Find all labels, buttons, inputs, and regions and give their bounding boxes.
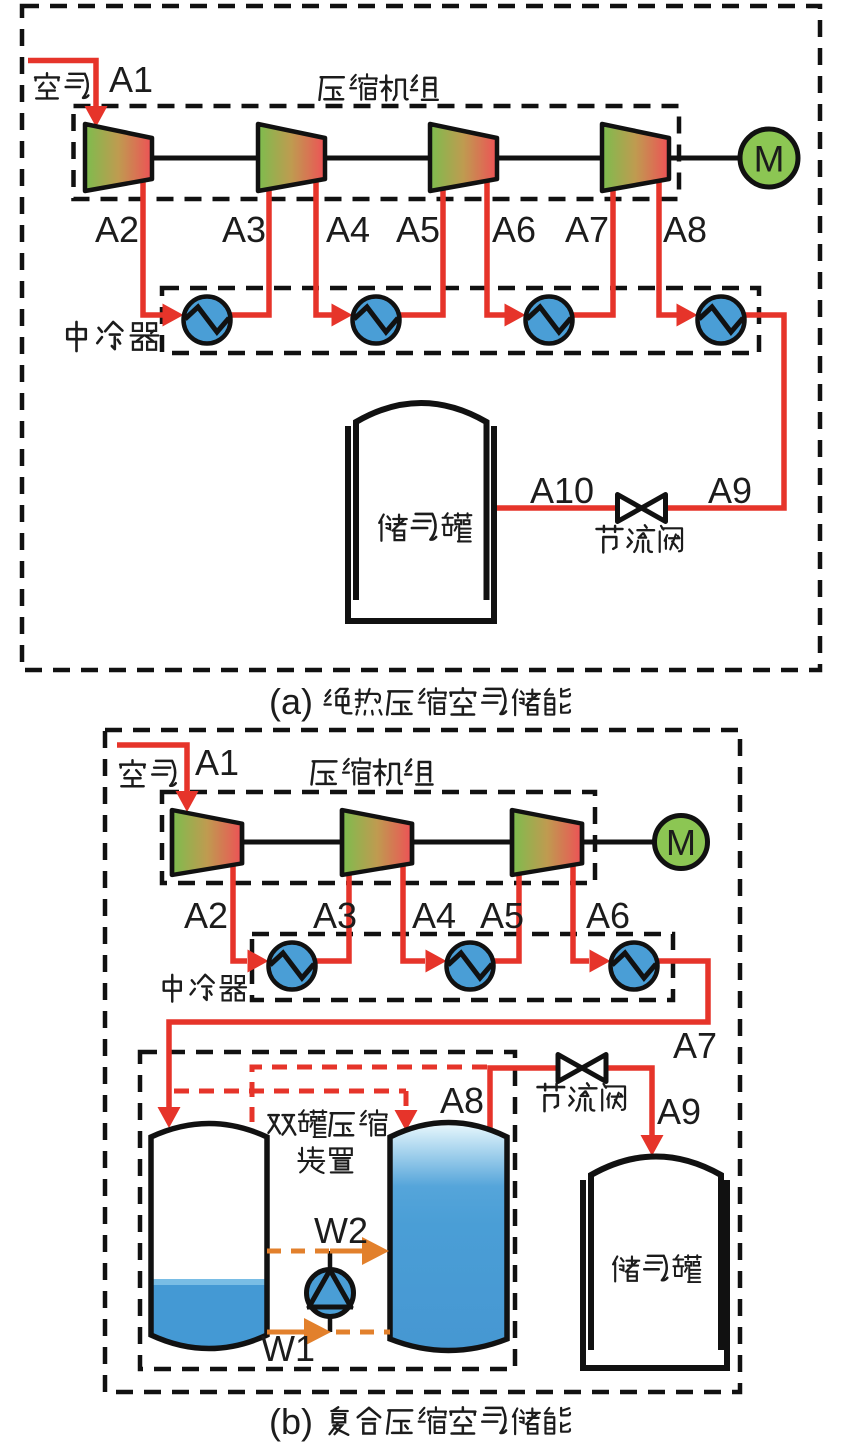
intercooler 3 (a)	[526, 297, 573, 344]
air storage tank (a)	[348, 403, 494, 621]
label intercooler (b)	[164, 975, 246, 1002]
pipe A3 intercooler1-compressor2 (a)	[230, 187, 269, 315]
svg-text:A10: A10	[530, 470, 594, 511]
svg-text:A9: A9	[708, 470, 752, 511]
svg-text:A3: A3	[313, 895, 357, 936]
pump line W (b)	[328, 1251, 333, 1332]
pipe A6 compressor3-intercooler3 (b)	[573, 866, 611, 973]
svg-text:A6: A6	[586, 895, 630, 936]
pipe air inlet A1 (b)	[117, 745, 199, 812]
label compressor-train (b)	[311, 758, 432, 785]
svg-text:A2: A2	[184, 895, 228, 936]
svg-text:(a): (a)	[269, 681, 313, 722]
label intercooler (a)	[67, 322, 158, 351]
compressor stage2 (a)	[258, 124, 325, 191]
caption (a)	[269, 681, 570, 722]
pipe W1 tank1-pump-tank2 (b)	[267, 1318, 390, 1346]
svg-text:M: M	[666, 822, 696, 863]
svg-text:A8: A8	[440, 1080, 484, 1121]
label throttle-valve (a)	[596, 525, 682, 552]
intercooler 1 (a)	[184, 297, 231, 344]
svg-text:A5: A5	[396, 209, 440, 250]
svg-text:A4: A4	[326, 209, 370, 250]
pipe A5 intercooler2-compressor3 (a)	[399, 187, 443, 315]
pipe A4 compressor2-intercooler2 (b)	[403, 866, 447, 973]
compressor stage3 (b)	[512, 810, 582, 875]
svg-text:A7: A7	[565, 209, 609, 250]
circulation pump (b)	[307, 1270, 354, 1317]
label tank3 (b)	[613, 1255, 701, 1282]
compressor train box (b)	[162, 792, 595, 883]
svg-text:(b): (b)	[269, 1401, 313, 1442]
pipe A7 intercooler3-tank1 (b)	[158, 961, 709, 1128]
throttle valve (a)	[618, 495, 666, 522]
boundary box system (b)	[105, 730, 740, 1392]
svg-text:A9: A9	[657, 1091, 701, 1132]
pipe W2 tank1-tank2 (b)	[267, 1237, 389, 1265]
air storage tank3 (b)	[583, 1157, 727, 1369]
standby pipe upper dashed (b)	[252, 1067, 490, 1122]
svg-text:A7: A7	[673, 1025, 717, 1066]
label tank (a)	[379, 513, 471, 541]
label compressor-train (a)	[319, 74, 437, 100]
pipe A2 compressor1-intercooler1 (a)	[143, 181, 184, 327]
svg-text:W2: W2	[314, 1210, 368, 1251]
boundary box system (a)	[22, 6, 820, 670]
pipe A8 compressor4-intercooler4 (a)	[659, 181, 698, 327]
pipe A10 valve-tank (a)	[497, 505, 616, 511]
intercooler 4 (a)	[698, 297, 745, 344]
compressor stage1 (b)	[172, 810, 242, 875]
svg-text:A5: A5	[480, 895, 524, 936]
pipe A3 intercooler1-compressor2 (b)	[315, 873, 349, 961]
pipe A7 intercooler3-compressor4 (a)	[572, 187, 613, 315]
svg-text:M: M	[754, 139, 785, 180]
label throttle-valve (b)	[538, 1083, 625, 1111]
pipe A9 intercooler4-valve (a)	[667, 315, 784, 508]
compressor stage3 (a)	[430, 124, 497, 191]
svg-text:A1: A1	[109, 59, 153, 100]
motor M (b)	[655, 816, 708, 869]
pipe A9 valve-tank3 (b)	[606, 1068, 664, 1156]
compressor stage2 (b)	[342, 810, 412, 875]
intercooler 3 (b)	[611, 943, 658, 990]
intercooler box (a)	[162, 288, 759, 353]
svg-text:W1: W1	[261, 1328, 315, 1369]
compressor train box (a)	[74, 106, 680, 199]
pipe A5 intercooler2-compressor3 (b)	[493, 873, 519, 961]
pipe A2 compressor1-intercooler1 (b)	[233, 866, 269, 973]
label air-in (b)	[120, 760, 176, 786]
shaft lines (b)	[242, 840, 655, 845]
standby pipe lower dashed to tank2 (b)	[174, 1091, 418, 1131]
intercooler 2 (b)	[447, 943, 494, 990]
motor M (a)	[740, 129, 798, 187]
pipe A8 tank2-valve (b)	[490, 1068, 558, 1134]
hot water tank2 (b)	[390, 1123, 507, 1351]
throttle valve (b)	[558, 1055, 606, 1082]
intercooler 1 (b)	[269, 943, 316, 990]
svg-text:A2: A2	[95, 209, 139, 250]
shaft lines (a)	[152, 156, 742, 161]
intercooler 2 (a)	[353, 297, 400, 344]
label two-tank unit (b)	[268, 1110, 386, 1173]
intercooler box (b)	[252, 934, 673, 1000]
caption (b)	[269, 1401, 570, 1442]
two-tank unit box (b)	[140, 1052, 515, 1369]
pipe air inlet A1 (a)	[28, 61, 108, 128]
svg-text:A4: A4	[412, 895, 456, 936]
compressor stage1 (a)	[85, 124, 152, 191]
pipe A4 compressor2-intercooler2 (a)	[316, 181, 353, 327]
svg-text:A1: A1	[195, 742, 239, 783]
svg-text:A6: A6	[492, 209, 536, 250]
pipe A6 compressor3-intercooler3 (a)	[487, 181, 526, 327]
compressor stage4 (a)	[602, 124, 669, 191]
svg-text:A3: A3	[222, 209, 266, 250]
svg-text:A8: A8	[663, 209, 707, 250]
label air-in (a)	[35, 73, 88, 98]
cold water tank1 (b)	[148, 1124, 270, 1360]
